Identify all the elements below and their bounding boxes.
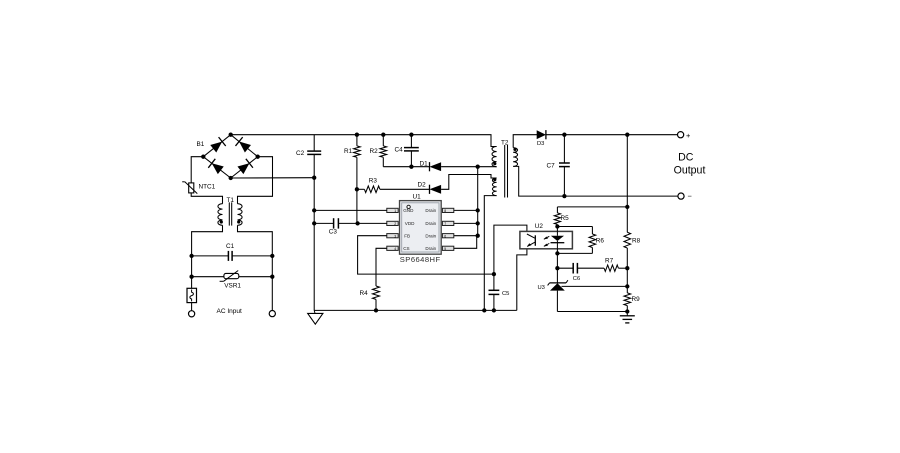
- svg-text:Drain: Drain: [425, 208, 436, 213]
- wire drain pin8 line: [454, 209, 478, 211]
- label FB pin: [404, 234, 410, 239]
- pin box 2: [387, 221, 398, 226]
- wire R5 line: [557, 206, 627, 208]
- label R8: [632, 237, 641, 244]
- svg-text:8: 8: [444, 209, 446, 213]
- junction C5 ground rail: [492, 308, 496, 312]
- label D1: [420, 160, 429, 167]
- ground primary (open triangle): [308, 310, 323, 324]
- wire U3 anode down: [556, 291, 558, 312]
- wire top rail from bridge to transformer primary: [231, 135, 497, 147]
- junction drain pin8: [476, 208, 480, 212]
- junction top rail C4: [409, 133, 413, 137]
- wire bridge bottom to ground column: [231, 177, 315, 179]
- svg-text:4: 4: [394, 247, 396, 251]
- wire C3 to VDD junction: [338, 222, 357, 224]
- junction C4 bottom: [409, 165, 413, 169]
- transformer T1 left winding: [218, 204, 223, 226]
- terminal AC left: [189, 311, 195, 317]
- svg-text:R8: R8: [632, 237, 641, 244]
- svg-text:C2: C2: [296, 150, 305, 157]
- svg-text:T1: T1: [227, 197, 235, 204]
- svg-text:AC Input: AC Input: [217, 308, 242, 315]
- svg-text:R7: R7: [605, 258, 614, 265]
- capacitor C5: [489, 290, 500, 294]
- bridge rectifier B1 diamond edges: [203, 135, 257, 178]
- junction bridge left vertex: [201, 155, 205, 159]
- label Drain pin 7: [425, 221, 436, 226]
- wire divider mid segment: [626, 268, 628, 293]
- shunt regulator U3 (TL431): [548, 280, 568, 290]
- wire secondary top to D3: [513, 135, 537, 148]
- svg-text:T2: T2: [501, 140, 509, 147]
- wire T1 left winding bottom to left AC column: [192, 225, 223, 288]
- resistor R1: [354, 135, 361, 224]
- junction aux return on ground rail: [482, 308, 486, 312]
- wire aux winding bottom to ground rail: [484, 196, 496, 311]
- diode B1 bottom-left: [208, 159, 224, 175]
- capacitor C2: [307, 151, 321, 154]
- resistor R2: [380, 135, 387, 167]
- wire GND pin1 to ground column: [314, 209, 387, 211]
- junction bridge-bottom ground column: [312, 176, 316, 180]
- svg-text:C7: C7: [547, 163, 556, 170]
- svg-text:C4: C4: [395, 146, 404, 153]
- wire CS pin4 to R4: [376, 248, 387, 286]
- pin box 8: [442, 208, 453, 213]
- pin box 1: [387, 208, 398, 213]
- svg-text:U2: U2: [535, 223, 544, 230]
- label U3: [538, 285, 545, 291]
- svg-text:CS: CS: [403, 246, 409, 251]
- svg-text:U1: U1: [413, 194, 422, 201]
- resistor R6: [589, 227, 596, 254]
- label DC Output: [674, 151, 706, 176]
- junction bridge top vertex: [229, 133, 233, 137]
- junction top rail R2: [381, 133, 385, 137]
- label plus: [686, 131, 691, 140]
- label minus: [688, 192, 693, 201]
- svg-text:DC: DC: [678, 151, 694, 163]
- terminal AC right: [269, 311, 275, 317]
- junction VSR1 right: [270, 275, 274, 279]
- phase dot T1 right: [237, 220, 240, 223]
- junction R7 R8: [625, 266, 629, 270]
- resistor R9: [624, 293, 631, 312]
- resistor R8: [624, 207, 631, 268]
- svg-text:+: +: [686, 131, 691, 140]
- wire opto emitter to ground rail: [517, 249, 527, 311]
- resistor R4: [373, 286, 380, 310]
- wire drain pin5 line: [454, 236, 477, 249]
- svg-text:GND: GND: [403, 208, 414, 213]
- junction C3 left: [312, 221, 316, 225]
- wire LED cathode to junction: [556, 249, 558, 254]
- diode D1: [430, 162, 442, 171]
- junction C1 right: [270, 254, 274, 258]
- capacitor C6: [573, 263, 577, 274]
- op-amp U1 body (SP6648HF): [400, 201, 442, 255]
- svg-text:D1: D1: [420, 160, 429, 167]
- varistor VSR1: [220, 271, 239, 282]
- label VDD pin: [405, 221, 415, 226]
- opto LED: [551, 231, 565, 248]
- wire opto collector to C5 column: [494, 225, 527, 290]
- capacitor C1: [228, 251, 232, 261]
- diode B1 bottom-right: [237, 159, 253, 175]
- wire D3 to plus terminal: [546, 134, 678, 136]
- label C3: [329, 229, 338, 236]
- label R3: [369, 178, 378, 185]
- junction drain pin7: [476, 221, 480, 225]
- wire C1 line right: [232, 255, 272, 257]
- opto light arrow lower: [544, 243, 550, 246]
- wire U3 anode to ground: [557, 311, 627, 313]
- label T2: [501, 140, 509, 147]
- fuse F1: [187, 288, 197, 302]
- pin box 6: [442, 234, 453, 239]
- wire fuse to AC terminal: [191, 303, 193, 311]
- resistor R5: [554, 207, 560, 227]
- terminal DC plus: [678, 132, 684, 138]
- capacitor C4: [404, 135, 419, 167]
- wire secondary bottom to minus rail: [513, 166, 678, 196]
- wire feedback column upper: [626, 135, 628, 207]
- transformer T2 core: [505, 145, 508, 198]
- junction FB line C5 column: [492, 272, 496, 276]
- junction ground R9: [625, 309, 629, 313]
- transformer T1 right winding: [238, 204, 243, 226]
- wire VDD C3 line left: [314, 222, 333, 224]
- wire NTC1 to T1 left winding top: [191, 193, 222, 204]
- wire R2 to D1: [383, 166, 429, 168]
- junction bridge bottom vertex: [229, 176, 233, 180]
- svg-text:VSR1: VSR1: [224, 282, 241, 289]
- label R5: [561, 215, 570, 222]
- svg-text:R5: R5: [561, 215, 570, 222]
- svg-text:VDD: VDD: [405, 221, 415, 226]
- thermistor NTC1: [182, 182, 197, 194]
- label VSR1: [224, 282, 241, 289]
- junction C6 left: [555, 266, 559, 270]
- junction bridge right vertex: [256, 155, 260, 159]
- pin box 7: [442, 221, 453, 226]
- svg-text:NTC1: NTC1: [199, 183, 216, 190]
- label NTC1: [199, 183, 216, 190]
- svg-text:C1: C1: [226, 243, 235, 250]
- label SP6648HF: [400, 255, 441, 264]
- wire VDD pin2 line right: [358, 222, 387, 224]
- svg-text:R6: R6: [596, 237, 605, 244]
- junction drain bus top: [476, 165, 480, 169]
- label CS pin: [403, 246, 409, 251]
- wire U3 ref line: [562, 285, 628, 287]
- label U1: [413, 194, 422, 201]
- junction top rail R1: [355, 133, 359, 137]
- junction R5 line: [625, 205, 629, 209]
- label B1: [197, 141, 205, 148]
- label R6: [596, 237, 605, 244]
- pin box 3: [387, 234, 398, 239]
- terminal DC minus: [678, 193, 684, 199]
- label D3: [537, 141, 544, 147]
- svg-text:D2: D2: [418, 181, 427, 188]
- junction R4 ground rail: [374, 308, 378, 312]
- label T1: [227, 197, 235, 204]
- capacitor C7: [559, 163, 570, 167]
- optocoupler U2 box: [520, 231, 573, 248]
- phase dot T1 left: [220, 220, 223, 223]
- svg-text:R3: R3: [369, 178, 378, 185]
- label C4: [395, 146, 404, 153]
- opto light arrow upper: [544, 236, 550, 239]
- junction drain pin6: [476, 234, 480, 238]
- transformer T2 primary winding: [492, 147, 497, 167]
- label C6: [573, 276, 580, 282]
- svg-text:R2: R2: [370, 148, 379, 155]
- wire C6 node to U3 cathode: [556, 268, 558, 283]
- svg-text:6: 6: [444, 234, 446, 238]
- wire drain pin6 line: [454, 235, 478, 237]
- label U2: [535, 223, 544, 230]
- label R7: [605, 258, 614, 265]
- junction VSR1 left: [189, 275, 193, 279]
- wire C1 line left: [192, 255, 229, 257]
- svg-text:Output: Output: [674, 165, 706, 177]
- svg-text:Drain: Drain: [425, 234, 436, 239]
- resistor R3: [357, 186, 430, 193]
- junction C7 bottom: [562, 194, 566, 198]
- diode B1 top-right: [235, 137, 251, 153]
- label C2: [296, 150, 305, 157]
- pin box 4: [387, 246, 398, 251]
- wire drain bus: [477, 167, 479, 236]
- svg-text:R1: R1: [344, 148, 353, 155]
- svg-text:Drain: Drain: [425, 221, 436, 226]
- wire R6 top line: [557, 226, 592, 228]
- wire bridge right vertex to T1 right winding top: [238, 157, 273, 204]
- resistor R7: [604, 265, 627, 271]
- ground secondary (earth): [620, 312, 635, 323]
- phase dot T2 aux: [493, 178, 496, 181]
- wire C6 left lead: [557, 267, 573, 269]
- wire C5 bottom to ground rail: [493, 294, 495, 310]
- svg-text:R4: R4: [360, 290, 369, 297]
- junction GND pin line: [312, 208, 316, 212]
- phase dot T2 primary: [493, 162, 496, 165]
- opto transistor base bar: [534, 235, 536, 246]
- wire D1 to transformer primary bottom: [441, 166, 497, 168]
- diode D2: [430, 185, 442, 194]
- svg-text:3: 3: [394, 234, 396, 238]
- transformer T1 core: [229, 202, 231, 225]
- diode B1 top-left: [210, 137, 226, 153]
- label R4: [360, 290, 369, 297]
- wire T1 right winding bottom to right AC terminal: [238, 225, 273, 310]
- label GND pin: [403, 208, 414, 213]
- label Drain pin 5: [425, 246, 436, 251]
- label R9: [632, 296, 641, 303]
- wire primary ground column: [313, 154, 315, 310]
- svg-text:D3: D3: [537, 141, 544, 147]
- wire R6 bottom line: [557, 252, 592, 254]
- junction R3 tap on R1 lead: [355, 187, 359, 191]
- label Drain pin 6: [425, 234, 436, 239]
- label D2: [418, 181, 427, 188]
- wire bridge left vertex to NTC1: [191, 157, 203, 183]
- transformer T2 secondary winding: [513, 148, 517, 167]
- label C1: [226, 243, 235, 250]
- wire D2 to aux winding top: [441, 175, 497, 190]
- pin 1 marker circle: [407, 205, 410, 208]
- svg-text:−: −: [688, 192, 693, 201]
- svg-text:U3: U3: [538, 285, 545, 291]
- wire C7 bottom lead: [563, 167, 565, 197]
- wire C7 top lead: [563, 135, 565, 163]
- label AC Input: [217, 308, 242, 315]
- label R1: [344, 148, 353, 155]
- svg-text:1: 1: [394, 209, 396, 213]
- svg-text:C6: C6: [573, 276, 580, 282]
- opto transistor emitter: [527, 242, 535, 246]
- svg-text:C3: C3: [329, 229, 338, 236]
- wire opto cathode to C6 node: [556, 253, 558, 268]
- opto transistor collector: [527, 234, 535, 238]
- svg-text:R9: R9: [632, 296, 641, 303]
- wire LED anode: [556, 227, 558, 232]
- wire FB pin3 to feedback line: [358, 236, 494, 274]
- junction U3 ref column: [625, 284, 629, 288]
- label R2: [370, 148, 379, 155]
- wire C6 to R7: [577, 267, 604, 269]
- svg-text:C5: C5: [502, 291, 509, 297]
- wire drain pin7 line: [454, 222, 478, 224]
- junction LED cathode: [555, 251, 559, 255]
- svg-text:B1: B1: [197, 141, 205, 148]
- svg-text:5: 5: [444, 247, 446, 251]
- wire primary bottom rail: [314, 309, 517, 311]
- wire C2 top lead: [313, 135, 315, 151]
- junction VDD R1: [355, 221, 359, 225]
- wire VSR1 line: [192, 276, 273, 278]
- svg-text:SP6648HF: SP6648HF: [400, 255, 441, 264]
- capacitor C3: [334, 218, 339, 228]
- diode D3: [537, 130, 546, 139]
- transformer T2 aux winding: [492, 178, 496, 196]
- junction R5 bottom LED anode: [555, 224, 559, 228]
- svg-text:Drain: Drain: [425, 246, 436, 251]
- label C7: [547, 163, 556, 170]
- svg-text:FB: FB: [404, 234, 410, 239]
- junction C7 top: [562, 133, 566, 137]
- svg-text:2: 2: [394, 222, 396, 226]
- junction C1 left: [189, 254, 193, 258]
- phase dot T2 secondary: [513, 148, 516, 151]
- label Drain pin 8: [425, 208, 436, 213]
- label C5: [502, 291, 509, 297]
- pin box 5: [442, 246, 453, 251]
- svg-text:7: 7: [444, 222, 446, 226]
- junction feedback column top: [625, 133, 629, 137]
